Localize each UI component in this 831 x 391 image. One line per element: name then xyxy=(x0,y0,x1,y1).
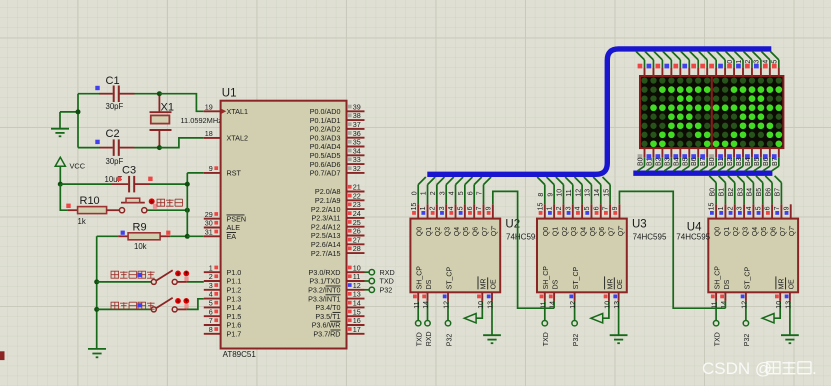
svg-text:P1.5: P1.5 xyxy=(227,312,242,321)
pin matrix bottom B0 col 9 xyxy=(709,148,716,171)
switch reset button xyxy=(119,198,157,213)
svg-text:B6: B6 xyxy=(763,157,770,166)
svg-text:38: 38 xyxy=(353,111,361,120)
pin 33 P0.6/AD6 U1 xyxy=(310,155,365,169)
svg-text:10k: 10k xyxy=(134,242,147,251)
svg-text:P2.1/A9: P2.1/A9 xyxy=(315,196,341,205)
svg-text:6: 6 xyxy=(467,191,474,195)
pin 27 P2.6/A14 U1 xyxy=(311,235,365,249)
terminal TXD at U1 xyxy=(365,277,394,286)
pin 12 ST_CP U2 xyxy=(443,267,454,309)
svg-text:Q6: Q6 xyxy=(473,227,480,236)
pin-state square scroll-right xyxy=(137,273,141,277)
svg-text:ST_CP: ST_CP xyxy=(573,267,580,290)
pin 39 P0.0/AD0 U1 xyxy=(310,102,365,116)
label reset key text xyxy=(157,199,183,206)
pin 1 Q1 U2 xyxy=(420,204,433,236)
wire net B2 bus to U4 Q2 xyxy=(728,176,735,204)
svg-text:15: 15 xyxy=(603,189,610,197)
svg-text:Q5: Q5 xyxy=(590,227,597,236)
pin matrix top col 5 xyxy=(672,51,681,76)
svg-text:17: 17 xyxy=(353,325,361,334)
svg-text:B5: B5 xyxy=(756,188,763,197)
svg-text:P2.2/A10: P2.2/A10 xyxy=(311,205,341,214)
svg-text:3: 3 xyxy=(439,191,446,195)
pin 18 XTAL2 U1 xyxy=(204,129,248,143)
svg-text:7: 7 xyxy=(603,206,610,210)
svg-text:P1.7: P1.7 xyxy=(227,330,242,339)
svg-text:B3: B3 xyxy=(737,188,744,197)
pin 8 P1.7 U1 xyxy=(204,325,241,339)
wire U4 DS stub xyxy=(724,301,726,308)
svg-text:25: 25 xyxy=(353,218,361,227)
svg-text:Q2: Q2 xyxy=(435,227,442,236)
svg-text:P0.7/AD7: P0.7/AD7 xyxy=(310,169,341,178)
pin 1 P1.0 U1 xyxy=(204,263,241,277)
pin 11 SH_CP U2 xyxy=(413,266,424,309)
svg-text:B2: B2 xyxy=(728,188,735,197)
svg-text:B2: B2 xyxy=(727,157,734,166)
svg-text:16: 16 xyxy=(353,316,361,325)
wire net 14 from Q6 U3 to bus xyxy=(593,177,601,204)
pin 4 Q4 U3 xyxy=(575,204,588,236)
wire RST vertical net xyxy=(186,173,188,236)
svg-text:MR: MR xyxy=(481,279,488,290)
svg-text:B4: B4 xyxy=(673,157,680,166)
pin 12 ST_CP U3 xyxy=(569,267,580,309)
svg-text:ST_CP: ST_CP xyxy=(744,267,751,290)
pin 16 P3.6/WR U1 xyxy=(312,316,365,330)
svg-text:4: 4 xyxy=(209,290,213,299)
svg-text:0: 0 xyxy=(727,60,734,64)
pin 21 P2.0/A8 U1 xyxy=(315,183,365,197)
svg-text:5: 5 xyxy=(458,191,465,195)
pin matrix top col 15 xyxy=(761,51,770,76)
svg-text:P0.0/AD0: P0.0/AD0 xyxy=(310,107,341,116)
svg-text:ST_CP: ST_CP xyxy=(446,267,453,290)
svg-text:24: 24 xyxy=(353,209,361,218)
svg-text:6: 6 xyxy=(209,307,213,316)
svg-text:B1: B1 xyxy=(646,157,653,166)
pin matrix bottom B1 col 2 xyxy=(646,148,653,171)
svg-text:U1: U1 xyxy=(222,88,237,100)
svg-text:P3.7/RD: P3.7/RD xyxy=(313,330,340,339)
svg-text:TXD: TXD xyxy=(714,332,721,346)
svg-text:TXD: TXD xyxy=(543,332,550,346)
shift register U4 74HC595 body xyxy=(708,219,798,293)
svg-text:2: 2 xyxy=(556,206,563,210)
wire net 5 from Q5 U2 to bus xyxy=(458,177,472,204)
terminal RXD at U1 xyxy=(365,268,395,277)
svg-text:7: 7 xyxy=(476,206,483,210)
wire net B1 bus to U4 Q1 xyxy=(719,176,726,204)
svg-text:Q6: Q6 xyxy=(770,227,777,236)
pin 3 Q3 U3 xyxy=(565,204,578,236)
pin matrix bottom B3 col 4 xyxy=(664,148,671,171)
svg-text:4: 4 xyxy=(575,206,582,210)
svg-text:B5: B5 xyxy=(754,157,761,166)
pin 3 P1.2 U1 xyxy=(204,281,241,295)
ground (buttons) xyxy=(88,349,106,357)
pin 1 Q1 U3 xyxy=(547,204,560,236)
svg-text:XTAL1: XTAL1 xyxy=(227,107,248,116)
svg-text:1k: 1k xyxy=(78,217,86,226)
pin matrix bottom B6 col 7 xyxy=(691,148,698,171)
svg-text:B7: B7 xyxy=(700,157,707,166)
pin 10 P3.0/RXD U1 xyxy=(309,263,365,277)
svg-text:B1: B1 xyxy=(718,157,725,166)
node reset net xyxy=(185,208,190,213)
wire vertical C1-C2 left xyxy=(77,94,79,148)
pin 5 Q5 U2 xyxy=(457,204,470,236)
pin 32 P0.7/AD7 U1 xyxy=(310,164,365,178)
pin 22 P2.1/A9 U1 xyxy=(315,191,365,205)
svg-text:B3: B3 xyxy=(664,157,671,166)
capacitor C2 xyxy=(78,128,159,166)
pin 7 Q7 U3 xyxy=(603,204,616,236)
svg-text:74HC595: 74HC595 xyxy=(676,233,710,242)
svg-text:Q2: Q2 xyxy=(562,227,569,236)
svg-text:19: 19 xyxy=(205,102,213,111)
svg-text:Q3: Q3 xyxy=(571,227,578,236)
pin 25 P2.4/A12 U1 xyxy=(311,218,365,232)
pin 12 ST_CP U4 xyxy=(741,267,752,309)
svg-text:TXD: TXD xyxy=(380,277,394,286)
svg-text:1: 1 xyxy=(421,191,428,195)
terminal P32 at U1 xyxy=(365,286,393,295)
svg-text:MR: MR xyxy=(607,279,614,290)
pin matrix top col 4 xyxy=(663,51,672,76)
svg-text:B0: B0 xyxy=(709,157,716,166)
pin 3 Q3 U4 xyxy=(737,204,750,236)
svg-text:1: 1 xyxy=(547,206,554,210)
svg-text:6: 6 xyxy=(593,206,600,210)
microcontroller U1 AT89C51 body xyxy=(221,101,347,349)
node crystal bottom xyxy=(157,145,162,150)
svg-text:ALE: ALE xyxy=(227,223,241,232)
power arrow at MR U2 xyxy=(464,301,482,323)
svg-text:B5: B5 xyxy=(682,157,689,166)
svg-text:P1.0: P1.0 xyxy=(227,268,242,277)
svg-text:P32: P32 xyxy=(744,334,751,347)
svg-text:OE: OE xyxy=(490,279,497,289)
svg-text:31: 31 xyxy=(205,227,213,236)
svg-text:B6: B6 xyxy=(691,157,698,166)
pin 6 P1.5 U1 xyxy=(204,307,241,321)
pin 2 Q2 U3 xyxy=(556,204,569,236)
svg-text:P32: P32 xyxy=(380,286,393,295)
svg-text:Q7: Q7 xyxy=(780,227,787,236)
svg-text:2: 2 xyxy=(430,191,437,195)
svg-text:3: 3 xyxy=(754,60,761,64)
svg-text:5: 5 xyxy=(209,299,213,308)
pin 5 Q5 U4 xyxy=(755,204,768,236)
pin 7 Q7 U2 xyxy=(476,204,489,236)
shift register U3 74HC595 body xyxy=(537,219,627,293)
svg-text:B0: B0 xyxy=(709,188,716,197)
wire net B6 bus to U4 Q6 xyxy=(765,176,772,204)
svg-text:15: 15 xyxy=(709,203,716,211)
svg-text:9: 9 xyxy=(612,206,619,210)
pin 2 P1.1 U1 xyxy=(204,272,241,286)
svg-text:Q4: Q4 xyxy=(454,227,461,236)
svg-text:Q1: Q1 xyxy=(553,227,560,236)
svg-text:P3.6/WR: P3.6/WR xyxy=(312,321,341,330)
svg-text:AT89C51: AT89C51 xyxy=(223,350,257,359)
svg-text:P1.2: P1.2 xyxy=(227,286,242,295)
pin 14 DS U4 xyxy=(720,279,731,308)
svg-text:MR: MR xyxy=(779,279,786,290)
svg-text:2: 2 xyxy=(209,272,213,281)
svg-text:12: 12 xyxy=(570,301,577,309)
svg-text:Q7': Q7' xyxy=(789,226,796,237)
svg-text:RXD: RXD xyxy=(426,331,433,346)
pin 6 Q6 U4 xyxy=(765,204,778,236)
pin 9 Q7' U4 xyxy=(783,204,796,236)
pin 36 P0.3/AD3 U1 xyxy=(310,129,365,143)
svg-text:7: 7 xyxy=(209,316,213,325)
LED dots of matrix xyxy=(641,77,782,147)
svg-text:12: 12 xyxy=(444,301,451,309)
svg-text:P1.3: P1.3 xyxy=(227,294,242,303)
pin 6 Q6 U3 xyxy=(593,204,606,236)
terminal P32 at U2 xyxy=(445,301,453,346)
pin 38 P0.1/AD1 U1 xyxy=(310,111,365,125)
pin 34 P0.5/AD5 U1 xyxy=(310,146,365,160)
pin 2 Q2 U2 xyxy=(429,204,442,236)
wire net 2 from Q2 U2 to bus xyxy=(430,177,444,204)
svg-text:P1.4: P1.4 xyxy=(227,303,242,312)
svg-text:P3.2/INT0: P3.2/INT0 xyxy=(308,286,340,295)
svg-text:14: 14 xyxy=(353,299,361,308)
svg-text:R10: R10 xyxy=(80,195,100,207)
pin matrix bottom B7 col 16 xyxy=(772,148,779,171)
svg-text:EA: EA xyxy=(227,232,237,241)
resistor R10 xyxy=(66,195,119,226)
pin 19 XTAL1 U1 xyxy=(204,102,248,116)
svg-text:Q1: Q1 xyxy=(724,227,731,236)
pin 14 DS U3 xyxy=(549,279,560,308)
svg-text:9: 9 xyxy=(783,206,790,210)
svg-text:9: 9 xyxy=(547,193,554,197)
svg-text:22: 22 xyxy=(353,191,361,200)
wire net 13 from Q5 U3 to bus xyxy=(584,177,592,204)
svg-text:Q3: Q3 xyxy=(742,227,749,236)
capacitor C1 xyxy=(78,75,159,111)
svg-text:15: 15 xyxy=(537,203,544,211)
svg-text:6: 6 xyxy=(765,206,772,210)
svg-text:P0.1/AD1: P0.1/AD1 xyxy=(310,116,341,125)
svg-text:6: 6 xyxy=(467,206,474,210)
pin matrix bottom B5 col 14 xyxy=(754,148,761,171)
svg-text:4: 4 xyxy=(763,60,770,64)
pin matrix top col 6 xyxy=(681,51,690,76)
wire reset button to RST net xyxy=(147,209,187,211)
pin matrix top col 8 xyxy=(699,51,708,76)
node R9-EA xyxy=(185,234,190,239)
wire net 1 from Q1 U2 to bus xyxy=(421,177,435,204)
wire cascade U3 Q7' to U4 DS xyxy=(619,191,725,308)
svg-text:12: 12 xyxy=(575,189,582,197)
ground at OE U3 xyxy=(610,301,628,343)
pin 14 P3.4/T0 U1 xyxy=(315,299,364,313)
svg-text:10: 10 xyxy=(478,301,485,309)
svg-text:15: 15 xyxy=(411,203,418,211)
wire ground to C1/C2 junction xyxy=(60,111,78,113)
pin 26 P2.5/A13 U1 xyxy=(311,227,365,241)
svg-text:SH_CP: SH_CP xyxy=(715,266,722,290)
node C3-RST xyxy=(185,182,190,187)
svg-text:5: 5 xyxy=(584,206,591,210)
wire net 8 from Q0 U3 to bus xyxy=(537,177,545,204)
pin 7 Q7 U4 xyxy=(774,204,787,236)
pin matrix top col 13 xyxy=(743,51,752,76)
svg-text:Q7: Q7 xyxy=(609,227,616,236)
svg-text:15: 15 xyxy=(353,307,361,316)
wire VCC down to R10 xyxy=(60,184,67,210)
pin 10 MR U3 xyxy=(604,276,615,308)
svg-text:10: 10 xyxy=(353,263,361,272)
svg-text:B0: B0 xyxy=(638,157,645,166)
svg-text:Q1: Q1 xyxy=(426,227,433,236)
svg-text:0: 0 xyxy=(411,191,418,195)
wire net 6 from Q6 U2 to bus xyxy=(467,177,481,204)
svg-text:X1: X1 xyxy=(161,102,174,114)
svg-text:35: 35 xyxy=(353,138,361,147)
wire net 15 from Q7 U3 to bus xyxy=(603,177,611,204)
svg-text:28: 28 xyxy=(353,244,361,253)
ground at OE U2 xyxy=(483,301,501,343)
svg-text:Q7': Q7' xyxy=(491,226,498,237)
pin 9 Q7' U2 xyxy=(485,204,498,236)
svg-text:P0.4/AD4: P0.4/AD4 xyxy=(310,142,341,151)
wire net B0 bus to U4 Q0 xyxy=(709,176,716,204)
pin 15 Q0 U3 xyxy=(537,203,550,237)
svg-text:11: 11 xyxy=(353,272,360,281)
dot matrix display module right xyxy=(712,76,784,148)
pin 5 Q5 U3 xyxy=(584,204,597,236)
svg-text:P1.6: P1.6 xyxy=(227,321,242,330)
wire EA to pin 31 xyxy=(187,235,204,237)
svg-text:C1: C1 xyxy=(106,75,120,87)
pin 14 DS U2 xyxy=(422,279,433,308)
svg-text:P3.5/T1: P3.5/T1 xyxy=(315,312,340,321)
svg-text:RST: RST xyxy=(227,169,242,178)
svg-text:3: 3 xyxy=(209,281,213,290)
pin matrix bottom B3 col 12 xyxy=(736,148,743,171)
svg-text:OE: OE xyxy=(788,279,795,289)
svg-text:R9: R9 xyxy=(133,222,147,234)
pin matrix top col 1 xyxy=(636,51,645,76)
svg-text:29: 29 xyxy=(205,210,213,219)
pin 13 OE U2 xyxy=(487,277,498,308)
pin-state square scroll-left xyxy=(137,303,141,307)
svg-text:13: 13 xyxy=(585,189,592,197)
terminal P32 at U4 xyxy=(743,301,751,346)
wire to XTAL1 pin 19 xyxy=(159,94,203,112)
svg-text:3: 3 xyxy=(565,206,572,210)
pin 3 Q3 U2 xyxy=(439,204,452,236)
pin 37 P0.2/AD2 U1 xyxy=(310,120,365,134)
shift register U2 74HC595 body xyxy=(410,219,500,293)
wire cascade U2 Q7' to U3 DS xyxy=(493,191,554,308)
svg-text:13: 13 xyxy=(786,301,793,309)
svg-text:11: 11 xyxy=(566,189,573,196)
svg-text:P2.0/A8: P2.0/A8 xyxy=(315,187,341,196)
wire net B5 bus to U4 Q5 xyxy=(756,176,763,204)
svg-text:Q7': Q7' xyxy=(618,226,625,237)
pin 24 P2.3/A11 U1 xyxy=(311,209,364,223)
crystal X1 xyxy=(150,94,223,148)
svg-text:.: . xyxy=(812,359,817,378)
node right-scroll tap xyxy=(94,279,99,284)
pin matrix bottom B7 col 8 xyxy=(700,148,707,171)
pin 6 Q6 U2 xyxy=(467,204,480,236)
pin matrix top col 11 xyxy=(726,51,735,76)
ground at OE U4 xyxy=(781,301,799,343)
svg-text:37: 37 xyxy=(353,120,361,129)
svg-text:Q0: Q0 xyxy=(715,227,722,236)
svg-text:36: 36 xyxy=(353,129,361,138)
pin matrix top col 2 xyxy=(645,51,654,76)
svg-text:14: 14 xyxy=(423,301,430,309)
pin 4 Q4 U2 xyxy=(448,204,461,236)
svg-text:P32: P32 xyxy=(573,334,580,347)
svg-text:2: 2 xyxy=(727,206,734,210)
switch scroll-right button xyxy=(97,270,204,284)
pin 9 Q7' U3 xyxy=(612,204,625,236)
svg-text:4: 4 xyxy=(746,206,753,210)
svg-text:7: 7 xyxy=(774,206,781,210)
svg-text:Q7: Q7 xyxy=(482,227,489,236)
wire U3 DS stub xyxy=(553,301,555,308)
pin 10 MR U2 xyxy=(477,276,488,308)
svg-text:2: 2 xyxy=(429,206,436,210)
svg-text:74HC595: 74HC595 xyxy=(633,233,667,242)
svg-text:B3: B3 xyxy=(736,157,743,166)
bus rows (matrix bottom to U4) xyxy=(633,170,772,175)
node junction left vertical xyxy=(76,109,81,114)
svg-text:3: 3 xyxy=(439,206,446,210)
pin 30 ALE U1 xyxy=(204,219,240,233)
svg-text:RXD: RXD xyxy=(380,268,395,277)
pin 10 MR U4 xyxy=(775,276,786,308)
svg-text:B2: B2 xyxy=(655,157,662,166)
svg-text:B4: B4 xyxy=(745,157,752,166)
svg-text:P3.0/RXD: P3.0/RXD xyxy=(309,268,341,277)
wire net B4 bus to U4 Q4 xyxy=(747,176,754,204)
svg-text:P1.1: P1.1 xyxy=(227,277,242,286)
dot matrix display module left xyxy=(640,76,712,148)
pin 29 PSEN U1 xyxy=(204,210,246,224)
svg-text:P3.1/TXD: P3.1/TXD xyxy=(309,277,340,286)
terminal TXD at U2 xyxy=(416,301,424,346)
node crystal top xyxy=(157,91,162,96)
svg-text:33: 33 xyxy=(353,155,361,164)
wire net 12 from Q4 U3 to bus xyxy=(575,177,583,204)
svg-text:1: 1 xyxy=(736,60,743,64)
pin 15 P3.5/T1 U1 xyxy=(315,307,364,321)
pin 11 P3.1/TXD U1 xyxy=(309,272,364,286)
svg-text:13: 13 xyxy=(614,301,621,309)
terminal TXD at U3 xyxy=(542,301,550,346)
terminal TXD at U4 xyxy=(713,301,721,346)
pin matrix bottom B2 col 3 xyxy=(655,148,662,171)
svg-text:21: 21 xyxy=(353,183,361,192)
svg-text:P3.3/INT1: P3.3/INT1 xyxy=(308,294,340,303)
terminal RXD at U2 xyxy=(425,301,433,346)
wire net 7 from Q7 U2 to bus xyxy=(477,177,491,204)
